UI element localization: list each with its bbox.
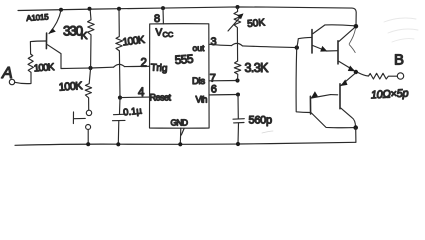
wire R4 down through hop to reset node <box>118 51 121 98</box>
resistor R5 3.3K <box>234 61 241 81</box>
wire pin6 node down to C2 <box>237 95 239 119</box>
pin 1 label <box>181 129 184 135</box>
wire C2 to bottom rail <box>237 123 240 144</box>
Q4 emitter arrow <box>311 91 318 98</box>
wire node to C1 <box>119 98 122 114</box>
svg-text:2: 2 <box>141 58 147 70</box>
switch SW1 upper contact <box>86 110 91 115</box>
wire Q2 emitter to Q3 base <box>326 50 337 52</box>
Q5 collector <box>341 108 356 127</box>
wire C1 to bottom rail <box>117 121 120 145</box>
wire overshoot below junction <box>349 29 355 53</box>
capacitor C1 0.1u <box>113 114 127 121</box>
node lower collectors junction <box>353 125 358 130</box>
wire hop over vertical <box>114 64 125 67</box>
wire node to bottom rail corner <box>355 128 357 143</box>
smudges (faint) <box>384 18 418 42</box>
svg-text:10Ω×5p: 10Ω×5p <box>371 88 409 102</box>
transistor Q1 A1015 base bar <box>45 33 47 49</box>
resistor R1 100K input <box>28 54 33 72</box>
wire Q4 emitter to Q5 base <box>331 94 338 96</box>
node pin7 junction <box>235 78 239 82</box>
svg-text:A1015: A1015 <box>26 12 49 23</box>
terminal A <box>9 79 14 84</box>
svg-text:0.1µ: 0.1µ <box>123 106 143 119</box>
svg-text:GND: GND <box>171 118 188 128</box>
wire pin 6 <box>209 94 238 96</box>
node C1 on rail <box>116 142 120 146</box>
svg-text:8: 8 <box>154 13 160 25</box>
svg-text:Reset: Reset <box>150 93 172 103</box>
node on rail at Q1 emitter <box>59 8 63 12</box>
wire trigger node row <box>61 67 114 68</box>
node C2 on rail <box>236 142 240 146</box>
wire bottom rail <box>15 142 356 145</box>
wire input A to 100K <box>15 72 31 83</box>
svg-text:6: 6 <box>211 84 217 96</box>
svg-text:A: A <box>1 65 13 82</box>
terminal B <box>397 73 403 79</box>
svg-text:out: out <box>193 43 205 53</box>
svg-text:3.3K: 3.3K <box>245 61 270 75</box>
wire hop on OUT <box>232 43 243 46</box>
svg-text:100K: 100K <box>122 34 146 49</box>
wire R1 to base Q1 <box>30 41 46 54</box>
node pin6 junction <box>236 93 240 97</box>
VR1 wiper arrow <box>228 15 242 31</box>
svg-text:K: K <box>81 30 88 42</box>
transistor Q5 base bar <box>339 84 341 109</box>
Q1 emitter <box>49 10 61 33</box>
node collectors junction <box>354 24 359 29</box>
node reset junction <box>118 96 122 100</box>
svg-text:100K: 100K <box>33 62 55 74</box>
Q2 collector <box>313 25 355 34</box>
wire top rail <box>18 7 356 26</box>
Q4 collector <box>311 113 355 128</box>
Q3 emitter <box>339 61 354 70</box>
capacitor C2 560p <box>233 119 244 123</box>
svg-text:Vth: Vth <box>196 95 208 105</box>
svg-text:100K: 100K <box>58 80 83 94</box>
node trigger junction <box>88 66 92 70</box>
node OUT junction <box>295 45 299 49</box>
wire OUT node up to Q2 base <box>297 37 312 47</box>
node on rail at 330K <box>88 7 92 11</box>
wire pin 7 <box>209 80 237 82</box>
resistor R3 100K <box>85 68 91 110</box>
resistor R4 100K (Vcc to reset) <box>116 9 123 51</box>
svg-text:3: 3 <box>211 36 217 48</box>
Q2 emitter <box>313 46 327 52</box>
Q5 emitter <box>341 73 356 85</box>
resistor R6 10ohm output <box>358 73 397 79</box>
Q3 collector <box>339 28 355 42</box>
node switch on rail <box>86 142 90 146</box>
transistor Q3 base bar <box>337 41 339 64</box>
Q2 emitter arrow <box>320 46 327 52</box>
svg-text:Dis: Dis <box>192 76 205 87</box>
node output junction <box>354 70 358 74</box>
transistor Q4 base bar <box>309 96 311 114</box>
wire pin 4 <box>120 96 150 99</box>
switch SW1 actuator <box>73 112 85 124</box>
node on rail at 100K <box>117 7 121 11</box>
Q1 emitter arrow <box>49 28 56 34</box>
Q1 collector <box>47 45 61 69</box>
potentiometer VR1 50K <box>234 7 241 61</box>
svg-text:555: 555 <box>174 52 194 67</box>
svg-text:V: V <box>156 28 163 39</box>
svg-text:50K: 50K <box>247 17 266 30</box>
transistor Q2 base bar <box>311 30 313 54</box>
node on rail at 50K <box>236 5 240 9</box>
resistor R2 330K <box>88 10 95 68</box>
svg-text:B: B <box>394 52 404 69</box>
node on rail at pin 8 <box>161 6 165 10</box>
Q3 emitter arrow <box>348 66 355 72</box>
svg-text:Trig: Trig <box>150 63 167 75</box>
wire pin 1 GND <box>179 128 182 144</box>
wire pin 3 OUT <box>209 44 231 45</box>
IC U1 555 box <box>150 24 210 129</box>
node pin1 on rail <box>178 142 182 146</box>
wire hop to pin 2 <box>125 65 150 67</box>
Q5 emitter arrow <box>340 79 347 86</box>
switch SW1 lower contact <box>86 125 91 130</box>
wire OUT to driver node <box>243 46 297 48</box>
wire pin 8 <box>162 8 164 24</box>
wire OUT node down to Q4 base <box>296 48 310 113</box>
wire switch to bottom rail <box>87 130 89 145</box>
svg-text:CC: CC <box>163 30 174 39</box>
svg-text:560p: 560p <box>249 115 272 127</box>
Q4 emitter <box>311 95 330 98</box>
